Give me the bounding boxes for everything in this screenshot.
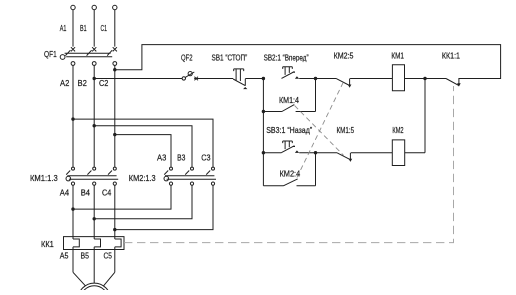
svg-text:A4: A4 <box>60 188 70 198</box>
svg-text:КМ1: КМ1 <box>391 51 404 61</box>
svg-text:C2: C2 <box>99 78 109 88</box>
svg-text:SB1 “СТОП”: SB1 “СТОП” <box>212 53 248 63</box>
svg-text:КМ2:4: КМ2:4 <box>280 169 301 179</box>
svg-text:A5: A5 <box>60 251 69 261</box>
svg-text:КМ1:4: КМ1:4 <box>279 95 299 105</box>
svg-text:C3: C3 <box>201 153 211 163</box>
svg-text:A3: A3 <box>157 153 167 163</box>
svg-text:QF2: QF2 <box>181 53 193 63</box>
svg-text:B2: B2 <box>78 78 88 88</box>
svg-text:SB3:1 “Назад”: SB3:1 “Назад” <box>266 125 312 135</box>
svg-text:КМ2:5: КМ2:5 <box>334 51 354 61</box>
svg-text:КК1: КК1 <box>41 239 54 249</box>
svg-text:C1: C1 <box>101 23 108 33</box>
svg-text:B3: B3 <box>177 153 186 163</box>
svg-text:КМ2: КМ2 <box>392 125 403 135</box>
svg-text:QF1: QF1 <box>44 49 57 59</box>
svg-text:КК1:1: КК1:1 <box>442 51 460 61</box>
svg-text:C4: C4 <box>102 188 112 198</box>
svg-text:A1: A1 <box>60 23 67 33</box>
svg-text:КМ1:5: КМ1:5 <box>337 125 355 135</box>
svg-text:B5: B5 <box>81 251 90 261</box>
svg-text:SB2:1 “Вперед”: SB2:1 “Вперед” <box>264 53 309 63</box>
svg-text:КМ2:1.3: КМ2:1.3 <box>129 173 156 183</box>
svg-text:КМ1:1.3: КМ1:1.3 <box>30 173 58 183</box>
svg-text:C5: C5 <box>104 251 113 261</box>
svg-text:B4: B4 <box>81 188 91 198</box>
svg-text:A2: A2 <box>60 78 70 88</box>
svg-text:B1: B1 <box>80 23 87 33</box>
